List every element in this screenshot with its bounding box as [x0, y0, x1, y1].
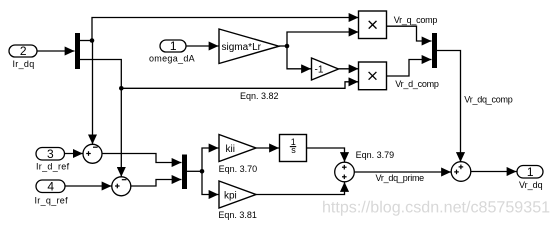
svg-text:-1: -1: [315, 64, 324, 75]
svg-text:Vr_dq: Vr_dq: [519, 180, 543, 190]
svg-text:Vr_q_comp: Vr_q_comp: [394, 15, 438, 25]
svg-text:Ir_d_ref: Ir_d_ref: [36, 162, 70, 172]
svg-text:Ir_dq: Ir_dq: [13, 59, 35, 69]
svg-text:1: 1: [527, 165, 534, 179]
svg-text:kii: kii: [226, 144, 235, 155]
svg-text:sigma*Lr: sigma*Lr: [222, 42, 262, 53]
svg-text:Eqn. 3.79: Eqn. 3.79: [356, 150, 395, 160]
svg-text:omega_dA: omega_dA: [149, 54, 195, 64]
svg-text:Ir_q_ref: Ir_q_ref: [35, 195, 69, 205]
svg-text:2: 2: [20, 44, 27, 58]
svg-text:s: s: [291, 145, 296, 155]
svg-text:kpi: kpi: [224, 190, 237, 201]
svg-text:Vr_d_comp: Vr_d_comp: [395, 79, 439, 89]
svg-text:Eqn. 3.82: Eqn. 3.82: [240, 91, 279, 101]
svg-text:3: 3: [47, 147, 54, 161]
svg-text:Eqn. 3.81: Eqn. 3.81: [218, 210, 257, 220]
svg-text:Vr_dq_prime: Vr_dq_prime: [376, 173, 425, 183]
svg-text:Vr_dq_comp: Vr_dq_comp: [464, 95, 512, 105]
svg-text:1: 1: [170, 39, 177, 53]
svg-text:4: 4: [47, 180, 54, 194]
svg-text:Eqn. 3.70: Eqn. 3.70: [219, 164, 258, 174]
svg-text:https://blog.csdn.net/c8575935: https://blog.csdn.net/c85759351: [322, 198, 550, 216]
